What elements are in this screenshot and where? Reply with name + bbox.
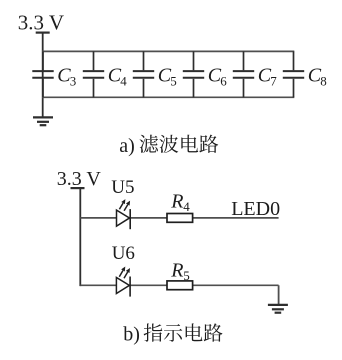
svg-text:3.3 V: 3.3 V — [18, 10, 64, 34]
svg-text:a): a) — [119, 135, 135, 157]
svg-text:4: 4 — [120, 74, 127, 89]
svg-text:3: 3 — [70, 74, 77, 89]
svg-text:6: 6 — [220, 74, 227, 89]
svg-text:7: 7 — [270, 74, 277, 89]
svg-text:R: R — [170, 259, 183, 281]
svg-text:b): b) — [123, 324, 140, 346]
svg-text:3.3 V: 3.3 V — [57, 168, 102, 190]
svg-text:5: 5 — [170, 74, 177, 89]
svg-text:5: 5 — [183, 268, 190, 283]
svg-text:8: 8 — [320, 74, 327, 89]
svg-text:LED0: LED0 — [231, 198, 280, 220]
svg-text:R: R — [170, 191, 183, 213]
svg-text:4: 4 — [183, 199, 190, 214]
svg-text:U5: U5 — [111, 177, 134, 198]
svg-text:U6: U6 — [112, 243, 135, 264]
